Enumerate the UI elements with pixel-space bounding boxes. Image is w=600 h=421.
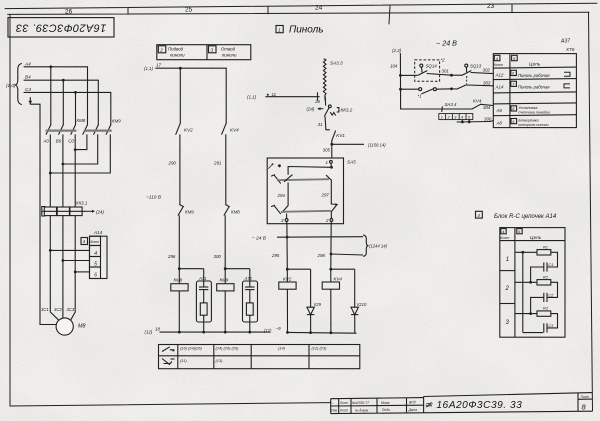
junction dot pos4 (461, 121, 464, 124)
SA5 manual drive arrow (268, 163, 281, 168)
svg-text:(2,3): (2,3) (392, 48, 402, 53)
svg-text:304: 304 (483, 105, 491, 110)
svg-text:5: 5 (94, 261, 97, 267)
junction dot branch1 (399, 74, 402, 77)
svg-text:KV1: KV1 (336, 133, 345, 138)
SA5 row1 right contact (326, 175, 331, 204)
junction dot crosslink col2 (62, 163, 65, 166)
svg-text:295: 295 (271, 253, 280, 258)
diode V210 branch (331, 269, 359, 333)
connector table XT6 A37 (493, 54, 576, 128)
svg-text:контроля пиноли: контроля пиноли (518, 123, 548, 127)
svg-text:SA5: SA5 (347, 160, 356, 165)
junction dot t2 branch (330, 253, 333, 256)
svg-text:М8: М8 (78, 324, 86, 330)
zone tick 24/23 (389, 6, 390, 24)
wire SA5 t2 down (330, 224, 332, 270)
svg-text:Установка: Установка (518, 106, 537, 110)
svg-text:(1158 14): (1158 14) (368, 142, 386, 147)
zone tick 26/25 (127, 8, 129, 14)
svg-text:КМ8: КМ8 (231, 210, 240, 215)
svg-text:Пиноль рабочая: Пиноль рабочая (518, 73, 550, 78)
junction dot A72 bus (248, 331, 251, 334)
svg-text:~110 В: ~110 В (146, 195, 162, 201)
junction dot KV2 tee (286, 268, 289, 271)
svg-text:(1244 14): (1244 14) (369, 243, 388, 248)
bus wire 9 net (11) (288, 331, 357, 334)
terminal block A14 (50, 236, 107, 278)
symbol NC contact row2 (162, 359, 170, 365)
svg-text:А12: А12 (495, 73, 504, 78)
wire C1 down to row2 (531, 267, 544, 282)
SA5 row2 right contact with arrow (331, 203, 338, 211)
svg-text:(12) (23): (12) (23) (312, 346, 328, 351)
thermal relay KK3.1 (42, 207, 86, 272)
contact pole col6 (106, 125, 111, 135)
diode V29 branch (287, 269, 314, 332)
svg-text:пиноли: пиноли (170, 53, 185, 58)
wire col2 lower (62, 135, 64, 207)
list box (577, 393, 579, 411)
brace to (1244) (363, 235, 368, 257)
coil KM9 (217, 269, 250, 332)
switch chain SA3.3 (323, 59, 326, 101)
junction dot pos5 (468, 121, 471, 124)
RC network (515, 250, 558, 333)
verticals (330, 399, 332, 414)
svg-text:23: 23 (487, 3, 495, 10)
wire 11 horizontal net (1,1) (266, 93, 319, 100)
contact pole col3 (71, 125, 76, 135)
capacitor C1 (546, 262, 548, 271)
motor M8 circle (56, 318, 73, 335)
SA3 position cells (439, 114, 473, 120)
svg-text:КМ8: КМ8 (174, 277, 183, 282)
SA5 terminal 3 (285, 214, 288, 224)
svg-text:24: 24 (315, 5, 323, 12)
svg-text:(11): (11) (180, 358, 187, 363)
svg-text:(1,1): (1,1) (144, 66, 154, 71)
svg-text:Блокировка: Блокировка (518, 119, 538, 123)
svg-text:298: 298 (317, 253, 326, 258)
svg-text:В4: В4 (25, 75, 31, 80)
linkage bar right group (86, 130, 111, 132)
junction dot KV4 tee (329, 268, 332, 271)
svg-text:Пиноль рабочая: Пиноль рабочая (518, 84, 550, 89)
wire to terminal 5 (63, 260, 90, 262)
junction dot col2 t5 (62, 259, 65, 262)
svg-text:А8: А8 (496, 120, 503, 125)
svg-text:2: 2 (325, 218, 329, 223)
SA5 row2 left outer contact (272, 205, 289, 213)
svg-text:3С2: 3С2 (54, 307, 62, 312)
svg-text:ВГ⁄д: ВГ⁄д (409, 401, 416, 405)
contact pole col5 (94, 125, 99, 135)
bottom border (10, 403, 331, 406)
tee to A72 (225, 268, 250, 270)
junction dot SA5 t1 (330, 166, 333, 169)
svg-text:Лист: Лист (339, 401, 349, 405)
contact KV4 (222, 123, 227, 205)
svg-text:KV2: KV2 (283, 277, 292, 282)
svg-text:KV4: KV4 (334, 277, 343, 282)
branch1 wire (400, 74, 417, 76)
SA5 row2 coupling bar (281, 211, 331, 212)
svg-text:6: 6 (94, 272, 97, 278)
zone box 1 (276, 26, 283, 33)
switch SQ13 (452, 64, 494, 75)
svg-text:Цепь: Цепь (530, 235, 542, 241)
svg-text:Лист: Лист (580, 395, 590, 399)
tee to A71 (179, 268, 203, 270)
wire C4 phase line (24, 92, 111, 124)
contact KM8 NC interlock (224, 205, 229, 269)
svg-text:2: 2 (159, 48, 163, 53)
svg-text:ХТ6: ХТ6 (565, 47, 575, 52)
wire col5 to col2 crosslink (63, 135, 98, 164)
SA5 row1 coupling bar (277, 179, 329, 180)
junction dot col1 t4 (49, 249, 52, 252)
contact pole col1 (46, 125, 51, 135)
svg-text:(1,0): (1,0) (6, 83, 16, 88)
svg-text:KV4: KV4 (473, 98, 482, 103)
row2 terminal wire (515, 281, 537, 283)
junction dot col3 t6 (74, 271, 77, 274)
motor M8 wires (50, 250, 75, 335)
svg-text:А14: А14 (93, 230, 103, 235)
right border (589, 12, 593, 411)
row3 terminal wire (515, 313, 537, 315)
wire C2 down to row3 (531, 297, 544, 313)
wire SA5 t3 down (286, 224, 288, 270)
svg-text:А71: А71 (198, 276, 206, 281)
svg-text:1: 1 (506, 257, 509, 263)
svg-text:Дата: Дата (408, 408, 418, 412)
wire R3 to C3 (547, 314, 558, 328)
wire B4 phase line (24, 80, 98, 125)
resistor R1 (537, 250, 551, 255)
svg-text:2: 2 (505, 286, 510, 292)
junction dot -24V t3 (286, 236, 289, 239)
svg-text:КМ8: КМ8 (77, 118, 86, 123)
junction dot branch2 mid (450, 87, 453, 90)
svg-text:Подвод: Подвод (168, 47, 184, 52)
row1 terminal wire (515, 251, 537, 253)
coil KM8 (171, 269, 204, 332)
feeder vertical (400, 54, 417, 110)
svg-text:KV2: KV2 (184, 128, 193, 133)
wire -24V line (277, 236, 363, 239)
svg-text:C1: C1 (548, 263, 553, 267)
svg-text:305: 305 (323, 147, 331, 152)
svg-text:1: 1 (441, 115, 443, 119)
contact pole col4 (83, 125, 88, 135)
inverted doc number box top-left (8, 18, 114, 37)
title block top left part (331, 398, 424, 399)
svg-text:А4: А4 (24, 61, 31, 66)
wire to terminal 6 (75, 271, 89, 273)
switch block SA5 box (267, 158, 343, 224)
svg-text:V210: V210 (357, 302, 367, 307)
contactor KM8 poles (left group) (46, 125, 111, 207)
junction dot wire17/KV2 (179, 67, 182, 70)
contact KV1 (326, 130, 336, 158)
symbol NO contact row1 (162, 347, 170, 352)
svg-text:31: 31 (318, 122, 323, 127)
svg-text:А0: А0 (43, 139, 50, 144)
svg-text:Пиноль: Пиноль (289, 25, 324, 36)
svg-text:Млов: Млов (381, 401, 390, 405)
svg-text:3С3: 3С3 (67, 307, 75, 312)
wire to terminal 4 (50, 249, 89, 251)
svg-text:(13): (13) (216, 358, 224, 363)
title block top right part (424, 393, 593, 397)
svg-text:16А20Ф3С39. 33: 16А20Ф3С39. 33 (15, 22, 106, 34)
capacitor C2 (546, 293, 548, 302)
left border (9, 14, 11, 406)
svg-text:Лист: Лист (339, 409, 349, 413)
svg-text:300: 300 (214, 254, 222, 259)
SA5 left vertical wire (287, 183, 289, 206)
junction dot branch1 mid (450, 74, 453, 77)
svg-text:11: 11 (272, 92, 277, 97)
junction dot row1 bus (521, 251, 524, 254)
svg-text:пиноли: пиноли (222, 53, 237, 58)
wire branch to brace (331, 254, 363, 255)
svg-text:26: 26 (65, 9, 73, 16)
dashed box SQ14 (415, 60, 440, 81)
top outer edge line (5, 3, 597, 8)
svg-text:R1: R1 (543, 245, 548, 249)
wire 17 horizontal (156, 68, 227, 123)
svg-text:(24): (24) (96, 209, 104, 214)
top inner frame line (8, 12, 589, 14)
junction dot 305 (330, 143, 333, 146)
svg-text:26: 26 (314, 99, 320, 104)
svg-text:− 24 В: − 24 В (436, 39, 457, 48)
junction dot wire 11 (267, 94, 269, 96)
RC block A72 (243, 281, 258, 332)
svg-text:297: 297 (321, 193, 330, 198)
coil KV2 (279, 269, 296, 332)
wire 31 (324, 116, 327, 130)
svg-text:300: 300 (484, 116, 492, 121)
svg-text:(12): (12) (145, 330, 153, 335)
brace (1,0) feeder (15, 64, 22, 105)
svg-text:≄ 16А20Ф3С39. 33: ≄ 16А20Ф3С39. 33 (424, 400, 522, 411)
junction dot B4-col2 (62, 79, 65, 82)
branch4 wire 300 (457, 120, 493, 122)
header box Podvod/Otvod pinoli (157, 45, 251, 60)
wire col1 lower (49, 135, 51, 207)
title block bottom (331, 411, 593, 413)
svg-text:(11): (11) (264, 328, 272, 333)
junction dot branch2 (399, 88, 402, 91)
switch SQ14 (418, 64, 452, 75)
svg-text:(1,1): (1,1) (247, 95, 257, 100)
svg-text:А37: А37 (560, 38, 570, 44)
wire A4 phase line (24, 67, 88, 125)
svg-text:Конт: Конт (500, 236, 509, 240)
contact KM9 NC interlock (178, 205, 183, 269)
svg-text:А72: А72 (244, 276, 253, 281)
svg-text:КК3.1: КК3.1 (76, 201, 88, 206)
svg-text:18: 18 (155, 327, 160, 332)
svg-text:КМ9: КМ9 (220, 277, 229, 282)
wire col3 lower (74, 135, 76, 207)
svg-text:− 24 В: − 24 В (252, 235, 267, 241)
wire to (1158) (332, 143, 364, 145)
linkage bar left group (47, 130, 76, 132)
zone boxes in header (494, 55, 500, 60)
svg-text:счетчика линейки: счетчика линейки (518, 111, 550, 115)
wire col3 drop (75, 92, 77, 124)
svg-text:№ докум.: № докум. (355, 408, 369, 412)
wire col1 drop (50, 67, 52, 125)
svg-text:Блок R-C цепочек А14: Блок R-C цепочек А14 (494, 214, 557, 220)
zone tick right (511, 5, 513, 13)
resistor R2 (537, 280, 551, 285)
junction dot V29 bus (309, 331, 312, 334)
RC table frame (500, 228, 565, 338)
arrow to (24) (317, 107, 323, 110)
junction dot row2 c1 (529, 281, 532, 284)
wire R1 to C1 (547, 252, 558, 267)
common bus (522, 252, 524, 332)
svg-text:SQ14: SQ14 (426, 63, 438, 68)
ground wire to motor (30, 104, 56, 324)
wire R2 to C2 (547, 282, 558, 297)
svg-text:290: 290 (168, 161, 177, 166)
svg-text:4: 4 (94, 251, 97, 257)
svg-text:Конт: Конт (494, 63, 503, 67)
junction dot C4-col3 (74, 91, 77, 94)
wire col6 to col1 crosslink (50, 135, 110, 173)
SA5 internal wire top (288, 167, 331, 175)
svg-text:25: 25 (185, 7, 193, 14)
junction dot KM8 tee (178, 267, 181, 270)
wire bus to C3 (523, 332, 543, 334)
svg-text:(16) (24)(26): (16) (24)(26) (180, 346, 203, 351)
junction dot A71 bus (202, 331, 205, 334)
svg-text:303: 303 (483, 80, 491, 85)
svg-text:Конт: Конт (91, 240, 100, 244)
arrow to (24) (86, 210, 96, 213)
mechanical link dashed (466, 76, 468, 84)
junction dot crosslink col3 (74, 148, 77, 151)
svg-text:−9: −9 (276, 326, 282, 331)
junction dot KV4 bus (330, 331, 333, 334)
svg-text:Изм: Изм (331, 409, 338, 413)
svg-text:*2: *2 (441, 58, 446, 63)
zone box 4 icon (476, 211, 483, 218)
svg-text:С4: С4 (25, 87, 31, 92)
wire col4 to col3 crosslink (75, 135, 87, 150)
ground symbol arrow (29, 98, 31, 104)
branch2 connector contacts (401, 85, 494, 94)
svg-text:КК3.2: КК3.2 (341, 108, 353, 113)
mid row line (331, 404, 424, 407)
contact KV2 (176, 123, 181, 205)
svg-text:294: 294 (277, 193, 286, 198)
svg-text:А14: А14 (495, 84, 504, 89)
SA5 row1 left outer contact (272, 175, 281, 183)
svg-text:КМ9: КМ9 (185, 210, 194, 215)
tick at end (317, 93, 319, 100)
svg-text:104: 104 (390, 64, 398, 69)
svg-text:Отвод: Отвод (221, 47, 236, 52)
svg-text:№4/330-77: №4/330-77 (352, 401, 369, 405)
svg-text:Цепь: Цепь (529, 62, 541, 68)
junction dot KM8 bus (178, 331, 181, 334)
thermal contact KK3.2 (325, 105, 339, 116)
svg-text:Подп.: Подп. (382, 408, 391, 412)
svg-text:В0: В0 (56, 139, 62, 144)
svg-text:KV4: KV4 (230, 128, 239, 133)
svg-text:3: 3 (211, 48, 214, 53)
svg-text:302: 302 (483, 68, 491, 73)
svg-text:(24) (26) (26): (24) (26) (26) (216, 346, 240, 351)
wire col2 drop (62, 80, 64, 125)
junction dot A4-col1 (49, 65, 52, 68)
svg-text:3С1: 3С1 (41, 307, 49, 312)
svg-text:SQ13: SQ13 (470, 63, 482, 68)
resistor R3 (537, 311, 551, 316)
svg-text:SA3.4: SA3.4 (445, 102, 458, 107)
svg-text:4: 4 (461, 115, 463, 119)
junction dot row3 c2 (529, 312, 532, 315)
row zone boxes (511, 70, 517, 75)
junction dot crosslink col1 (49, 172, 52, 175)
svg-text:−: − (332, 401, 334, 405)
wire KV2 branch upper (179, 68, 181, 123)
svg-text:КМ9: КМ9 (112, 119, 121, 124)
contact pole col2 (59, 125, 64, 135)
RC block A71 (196, 281, 211, 332)
SA5 terminal 1 (330, 160, 333, 167)
svg-text:(14): (14) (278, 346, 286, 351)
coil KV4 (322, 269, 339, 333)
SA5 terminal 2 (330, 212, 333, 224)
SA5 row1 left moving contact (284, 175, 293, 182)
svg-text:*1: *1 (418, 94, 422, 99)
junction dot KV2 bus (286, 331, 289, 334)
svg-text:296: 296 (167, 254, 176, 259)
wire KV4 branch upper (225, 68, 227, 123)
wire 26 (324, 97, 326, 106)
junction dot KM9 bus (224, 331, 227, 334)
junction dot KM9 tee (224, 267, 227, 270)
svg-text:301: 301 (442, 69, 450, 74)
branch3 SA3.4 wire (401, 104, 494, 111)
svg-text:С0: С0 (68, 139, 74, 144)
bus wire 18 net (12) (160, 331, 271, 333)
svg-text:1: 1 (278, 27, 281, 33)
svg-text:291: 291 (213, 161, 222, 166)
zone tick 25/24 (267, 7, 269, 14)
svg-text:V29: V29 (314, 302, 322, 307)
svg-text:17: 17 (156, 63, 161, 68)
svg-text:(24): (24) (307, 107, 315, 112)
capacitor C3 (546, 323, 548, 332)
svg-text:SA3.3: SA3.3 (330, 61, 343, 66)
svg-text:А6: А6 (496, 108, 503, 113)
